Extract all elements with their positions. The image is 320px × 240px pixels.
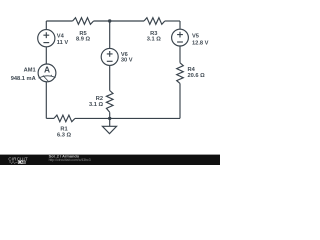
svg-text:http://circuitlab.com/c/43bc3: http://circuitlab.com/c/43bc3 xyxy=(49,158,91,162)
svg-text:LAB: LAB xyxy=(18,160,26,164)
svg-text:3.1 Ω: 3.1 Ω xyxy=(147,36,161,42)
svg-text:30 V: 30 V xyxy=(121,58,133,64)
svg-text:20.6 Ω: 20.6 Ω xyxy=(188,73,206,79)
svg-text:R2: R2 xyxy=(96,96,103,102)
svg-text:AM1: AM1 xyxy=(24,68,36,74)
svg-text:V4: V4 xyxy=(57,33,65,39)
svg-text:11 V: 11 V xyxy=(57,40,69,46)
svg-text:12.8 V: 12.8 V xyxy=(192,40,209,46)
svg-text:V5: V5 xyxy=(192,34,199,40)
svg-text:A: A xyxy=(44,65,50,75)
svg-text:6.3 Ω: 6.3 Ω xyxy=(57,133,71,139)
svg-text:8.9 Ω: 8.9 Ω xyxy=(76,36,90,42)
svg-text:948.1 mA: 948.1 mA xyxy=(11,76,36,82)
svg-text:3.1 Ω: 3.1 Ω xyxy=(89,102,103,108)
